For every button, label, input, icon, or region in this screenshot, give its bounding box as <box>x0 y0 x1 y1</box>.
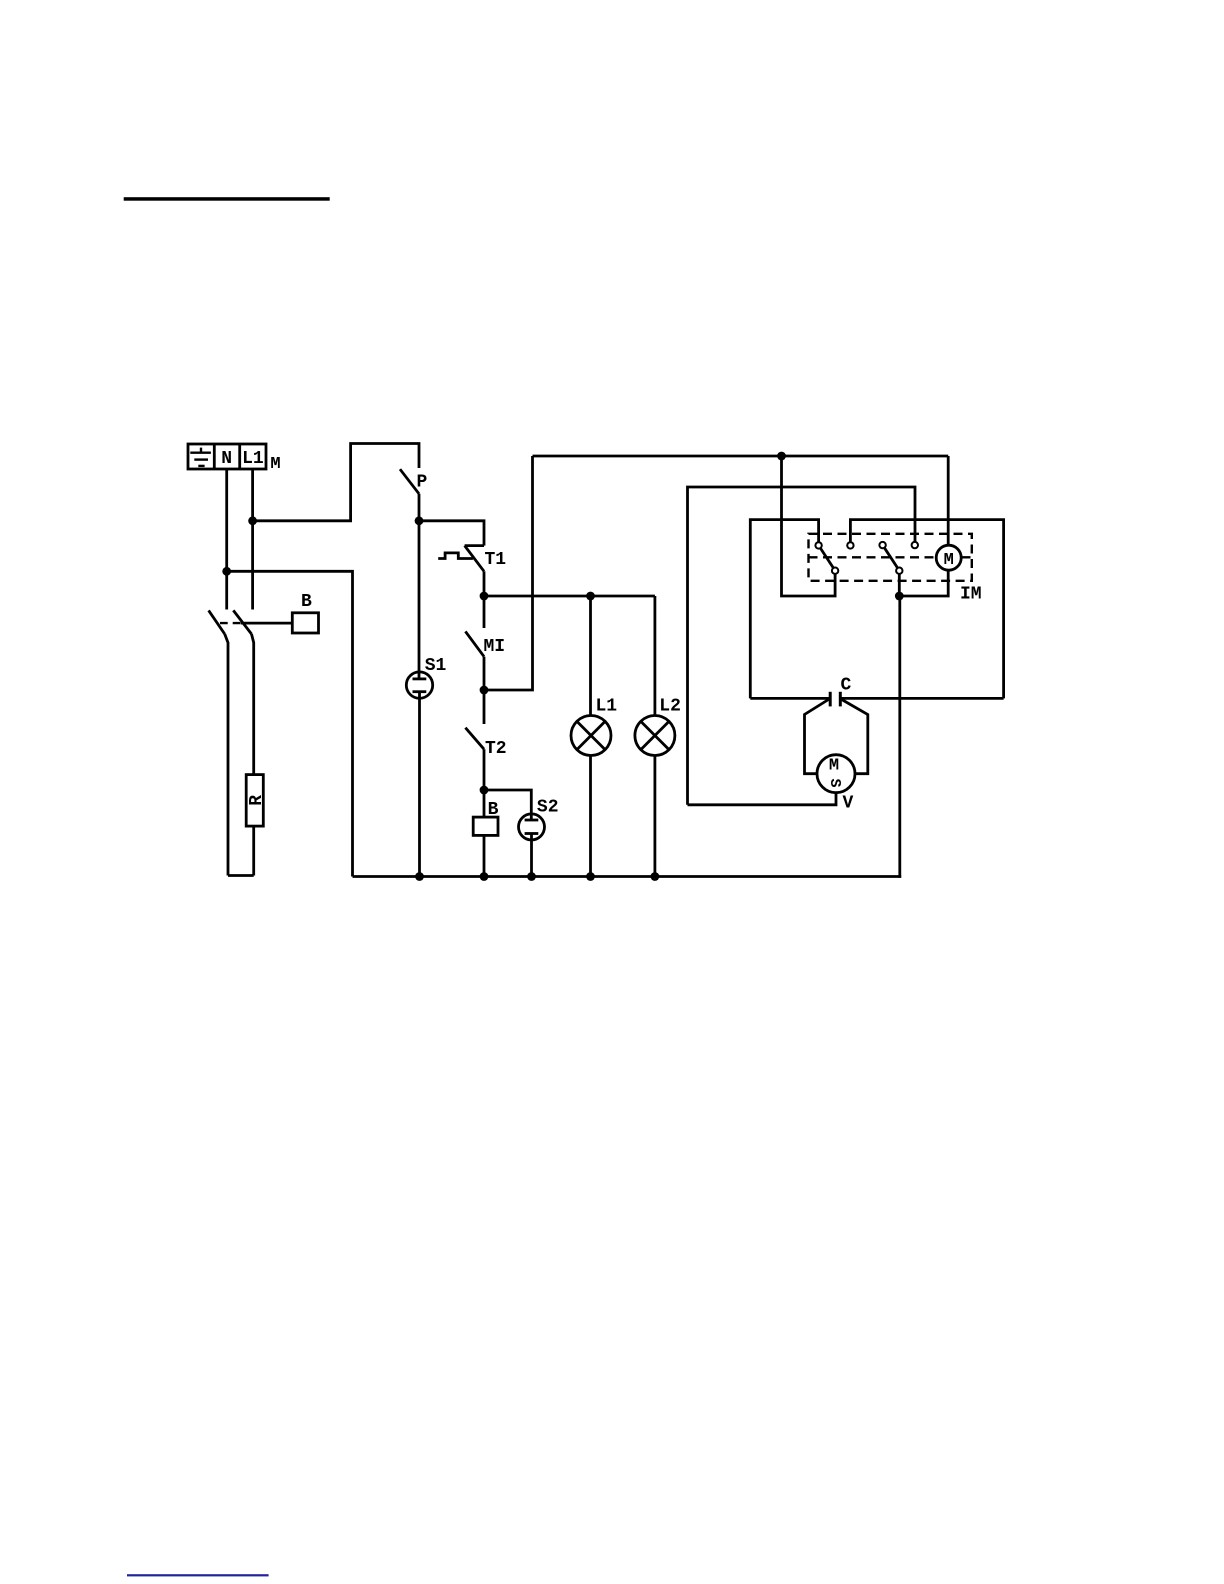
wire T1 to MI <box>483 571 486 596</box>
wire junction down to bottom rail <box>898 596 901 878</box>
wire MI upper <box>483 596 486 628</box>
switch MI <box>465 631 484 656</box>
node L1 lamp tap <box>586 592 595 601</box>
thermal switch T1 <box>438 546 484 572</box>
IM contact c3 <box>879 542 885 548</box>
resistor R <box>246 775 263 827</box>
IM lower contact c1b <box>832 568 838 574</box>
IM lower contact c2b <box>896 568 902 574</box>
svg-text:L2: L2 <box>659 697 681 717</box>
wire N to bottom rail riser <box>227 571 353 876</box>
capacitor C feed left <box>750 697 830 700</box>
wire to lamp L2 <box>654 596 657 716</box>
svg-text:S: S <box>826 778 843 787</box>
wire T2 down <box>483 749 486 790</box>
wire to coil B <box>483 790 486 817</box>
second distribution wire <box>688 487 916 805</box>
footer rule <box>127 1574 269 1576</box>
svg-text:P: P <box>417 473 428 493</box>
wire lamp feed <box>484 595 655 598</box>
node N junction <box>222 567 231 576</box>
wire L1 over to P <box>253 444 419 521</box>
wire MI junction to riser <box>484 456 533 690</box>
svg-text:M: M <box>829 757 839 776</box>
IM terminal 1 stub <box>750 520 818 699</box>
interlock B box <box>292 613 318 633</box>
node L1 junction <box>248 516 257 525</box>
wire MS to V rail <box>688 793 837 805</box>
node P junction <box>415 516 424 525</box>
IM mechanical link line <box>809 556 937 558</box>
svg-text:V: V <box>843 794 854 814</box>
wire lamp L1 to bottom rail <box>589 756 592 877</box>
node T1 junction <box>480 592 489 601</box>
svg-text:M: M <box>944 551 954 570</box>
switch S2 <box>519 814 545 840</box>
svg-text:MI: MI <box>484 637 506 657</box>
node S1 bottom <box>415 872 424 881</box>
lamp L2 <box>635 716 675 756</box>
bottom rail <box>353 875 902 878</box>
capacitor C feed right <box>840 697 1003 700</box>
IM contact c4 <box>912 542 918 548</box>
wire top junction down to switch loop <box>782 456 836 596</box>
IM contact c1 <box>815 542 821 548</box>
coil B box <box>473 817 498 835</box>
wire lamp L2 to bottom rail <box>654 756 657 877</box>
IM switch blade 1 <box>820 548 833 568</box>
capacitor C plates <box>830 692 840 707</box>
node B bottom <box>480 872 489 881</box>
wire S2 to bottom rail <box>530 834 533 877</box>
svg-text:L1: L1 <box>596 697 618 717</box>
wire S1 to bottom rail <box>418 692 421 877</box>
switch T2 <box>465 728 484 750</box>
wire to S2 <box>484 790 531 820</box>
svg-text:T1: T1 <box>485 550 507 570</box>
svg-text:C: C <box>841 676 852 696</box>
IM switch blade 2 <box>884 548 897 568</box>
wire P to S1 <box>418 494 421 679</box>
motor MS bracket left <box>805 700 829 774</box>
wire B to bottom rail <box>483 835 486 876</box>
wire to lamp L1 <box>589 596 592 716</box>
motor MS bracket right <box>842 700 868 774</box>
wire M bottom <box>899 570 948 596</box>
svg-text:S2: S2 <box>537 798 559 818</box>
terminal block M <box>188 444 266 469</box>
svg-text:N: N <box>221 449 232 469</box>
svg-text:T2: T2 <box>485 739 507 759</box>
svg-text:IM: IM <box>960 585 982 605</box>
motor MS <box>817 755 855 793</box>
node S2 bottom <box>527 872 536 881</box>
node c2b junction <box>895 592 904 601</box>
switch S1 <box>406 672 432 698</box>
wire L1 down <box>251 469 254 610</box>
timer motor M <box>936 545 961 570</box>
wire link to B box <box>241 622 292 625</box>
wire c2b to junction <box>898 574 901 596</box>
wire N down <box>225 469 228 610</box>
svg-text:B: B <box>301 592 312 612</box>
node T2 junction <box>480 786 489 795</box>
heading rule <box>124 197 330 201</box>
wire P junction to T1 <box>419 521 484 546</box>
IM terminal 2 stub <box>850 520 1003 699</box>
svg-text:S1: S1 <box>425 656 447 676</box>
svg-text:R: R <box>247 795 267 806</box>
lamp L1 <box>571 716 611 756</box>
node top junction <box>777 452 786 461</box>
node L1 bottom <box>586 872 595 881</box>
wire R to U bottom <box>252 826 255 875</box>
top distribution wire <box>533 455 949 458</box>
IM dashed box <box>809 534 972 581</box>
IM contact c2 <box>847 542 853 548</box>
mechanical link to B <box>220 622 241 624</box>
node MI junction <box>480 686 489 695</box>
node L2 bottom <box>651 872 660 881</box>
svg-text:L1: L1 <box>242 449 264 469</box>
wire M feed <box>947 456 950 545</box>
double-pole door switch <box>209 610 254 875</box>
svg-text:M: M <box>270 455 280 474</box>
ground symbol <box>190 448 211 466</box>
wire MI to T2 <box>483 657 486 724</box>
switch P <box>400 469 419 494</box>
